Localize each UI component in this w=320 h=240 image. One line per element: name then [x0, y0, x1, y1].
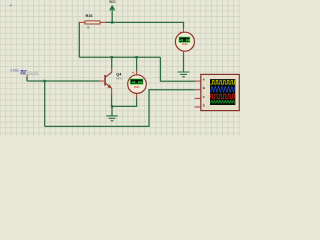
origin marker dot: [10, 5, 12, 7]
wire: VCC top rail from R16 to meter1 corner: [105, 22, 184, 28]
svg-text:DCLOCK: DCLOCK: [27, 73, 39, 75]
wire: clock generator pin: [26, 77, 28, 82]
wire: emitter down to junction: [111, 95, 113, 107]
svg-text:C: C: [203, 95, 205, 99]
transistor Q4 collector pin: [111, 69, 113, 72]
svg-text:Volts: Volts: [182, 43, 189, 46]
wire: drop to transistor collector: [111, 57, 113, 69]
junction: base node: [44, 80, 46, 82]
junction: collector node at rail: [111, 56, 113, 58]
junction: voltmeter2 top at rail: [135, 56, 137, 58]
clock generator input: [10, 68, 39, 76]
svg-text:B: B: [203, 86, 205, 90]
wire: collector node horizontal rail: [79, 56, 160, 58]
wire: voltmeter1 bottom to ground: [183, 54, 185, 72]
wire: VCC power stem: [111, 10, 113, 23]
voltmeter2 (collector): [128, 71, 147, 97]
junction: VCC node: [111, 21, 113, 23]
voltmeter1 (VCC): [175, 28, 194, 55]
svg-text:NPN: NPN: [116, 77, 123, 81]
wire: collector node to scope channel A: [160, 57, 194, 81]
transistor Q4: [99, 72, 122, 94]
ground 2 (emitter): [106, 116, 118, 121]
junction: emitter ground node: [111, 105, 113, 107]
resistor R16: [80, 14, 106, 29]
wire: drop to voltmeter2 top: [136, 57, 138, 71]
wire: base node drop to bottom rail: [44, 81, 46, 126]
oscilloscope: [195, 74, 240, 110]
svg-text:A: A: [203, 77, 205, 81]
wire: junction to ground2: [111, 106, 113, 116]
svg-text:1k: 1k: [86, 26, 90, 30]
wire: R16 left lead down to collector node rail: [78, 22, 81, 57]
wire: bottom rail to scope channel B: [45, 90, 195, 127]
wire: base wire from clock to transistor: [27, 80, 99, 82]
ground 1 (under voltmeter1): [178, 72, 190, 77]
svg-text:Volts: Volts: [134, 86, 141, 89]
svg-text:VCC: VCC: [109, 0, 116, 4]
power symbol VCC: [109, 0, 116, 11]
wire: voltmeter2 bottom to emitter junction: [112, 98, 137, 107]
svg-text:D: D: [203, 103, 205, 107]
svg-text:0.5Hz: 0.5Hz: [10, 68, 19, 72]
svg-text:R16: R16: [86, 14, 93, 18]
svg-text:+0.00: +0.00: [131, 81, 142, 85]
